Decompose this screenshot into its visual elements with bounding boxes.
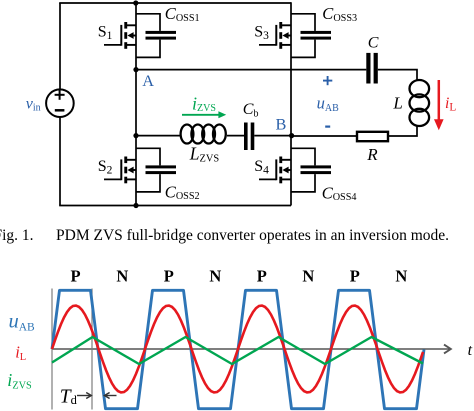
svg-text:B: B <box>276 115 287 134</box>
svg-text:S2: S2 <box>98 158 113 177</box>
capacitor COSS4 <box>291 148 331 192</box>
svg-text:iL: iL <box>15 342 26 363</box>
label minus <box>325 125 330 127</box>
svg-text:R: R <box>366 145 378 164</box>
time axis <box>52 345 451 354</box>
arrow iL <box>434 80 444 130</box>
arrow iZVS <box>182 111 226 118</box>
svg-text:iZVS: iZVS <box>7 370 32 391</box>
svg-text:S3: S3 <box>254 23 269 42</box>
label t <box>468 342 473 359</box>
svg-text:iL: iL <box>445 95 456 114</box>
svg-text:iZVS: iZVS <box>192 94 216 115</box>
legend iZVS <box>7 370 32 391</box>
waveform iL red <box>52 306 423 393</box>
svg-text:Td: Td <box>60 387 78 408</box>
wire Cb to node B <box>254 135 291 137</box>
label S2 <box>98 158 113 177</box>
node B <box>289 133 294 138</box>
Td arrow right <box>77 393 91 399</box>
label iZVS <box>192 94 216 115</box>
node A <box>133 67 138 72</box>
capacitor Cb <box>244 123 254 151</box>
label COSS4 <box>322 184 357 204</box>
wire resistor R to node B <box>291 135 357 137</box>
transistor S3 <box>259 22 291 49</box>
capacitor COSS2 <box>136 148 176 192</box>
caption Fig. 1. <box>0 227 34 244</box>
label L <box>392 94 402 113</box>
label Cb <box>243 101 259 120</box>
transistor S4 <box>259 157 291 184</box>
waveform uAB blue <box>52 290 424 408</box>
label N3 <box>302 267 314 286</box>
marker line 2 <box>91 289 93 410</box>
svg-text:S1: S1 <box>98 23 113 42</box>
svg-text:L: L <box>392 94 402 113</box>
svg-text:P: P <box>71 267 81 286</box>
svg-text:COSS2: COSS2 <box>165 183 200 203</box>
label P3 <box>257 267 267 286</box>
svg-text:N: N <box>302 267 314 286</box>
label A <box>142 71 154 90</box>
transistor S1 <box>104 22 136 49</box>
svg-text:uAB: uAB <box>317 94 339 114</box>
Td arrow left <box>105 393 117 399</box>
label S4 <box>254 158 269 177</box>
wire top bus <box>59 2 291 4</box>
label COSS1 <box>165 4 200 24</box>
wire right leg <box>290 2 292 205</box>
label vin <box>26 96 41 114</box>
wire node A leg to inductor LZVS <box>136 135 181 137</box>
svg-text:P: P <box>164 267 174 286</box>
wire inductor L to B-level <box>389 125 417 136</box>
svg-text:C: C <box>368 35 379 52</box>
svg-text:COSS1: COSS1 <box>165 4 200 24</box>
svg-text:vin: vin <box>26 96 41 114</box>
junction dot top left leg <box>133 0 138 5</box>
capacitor COSS1 <box>136 14 176 58</box>
label S3 <box>254 23 269 42</box>
wire source top riser <box>59 3 61 90</box>
resistor R <box>357 132 388 141</box>
label uAB <box>317 94 339 114</box>
waveform iZVS green <box>52 337 423 364</box>
label iL <box>445 95 456 114</box>
label N2 <box>209 267 221 286</box>
svg-text:COSS4: COSS4 <box>322 184 357 204</box>
junction dot bottom left leg <box>133 203 138 208</box>
voltage source vin <box>46 89 74 117</box>
svg-text:A: A <box>142 71 154 90</box>
svg-text:N: N <box>395 267 407 286</box>
label S1 <box>98 23 113 42</box>
label COSS3 <box>322 4 357 24</box>
label P1 <box>71 267 81 286</box>
svg-text:Cb: Cb <box>243 101 259 120</box>
svg-text:P: P <box>257 267 267 286</box>
wire source bottom riser <box>59 117 61 206</box>
svg-text:P: P <box>350 267 360 286</box>
svg-text:S4: S4 <box>254 158 269 177</box>
capacitor C <box>366 53 378 84</box>
label plus <box>323 76 332 85</box>
label B <box>276 115 287 134</box>
svg-text:Fig. 1.: Fig. 1. <box>0 227 34 244</box>
svg-text:COSS3: COSS3 <box>322 4 357 24</box>
label N1 <box>116 267 128 286</box>
svg-text:uAB: uAB <box>9 310 36 333</box>
label N4 <box>395 267 407 286</box>
label LZVS <box>189 144 220 165</box>
label R <box>366 145 378 164</box>
label P2 <box>164 267 174 286</box>
wire bottom bus <box>59 205 291 207</box>
junction dot left leg at B-level <box>133 133 138 138</box>
legend iL <box>15 342 26 363</box>
svg-text:t: t <box>468 342 473 359</box>
wire left leg <box>135 3 137 206</box>
transistor S2 <box>104 157 136 184</box>
inductor L <box>410 80 430 126</box>
svg-text:N: N <box>116 267 128 286</box>
legend uAB <box>9 310 36 333</box>
label COSS2 <box>165 183 200 203</box>
wire LZVS to Cb <box>227 135 244 137</box>
label P4 <box>350 267 360 286</box>
caption text <box>56 227 449 244</box>
label C <box>368 35 379 52</box>
wire A-level to capacitor C <box>136 69 366 71</box>
label Td <box>60 387 78 408</box>
marker line 1 <box>51 289 53 410</box>
inductor LZVS <box>181 125 226 144</box>
wire capacitor C to corner <box>378 70 417 81</box>
svg-text:LZVS: LZVS <box>189 144 220 165</box>
capacitor COSS3 <box>291 14 331 58</box>
svg-text:PDM ZVS full-bridge converter: PDM ZVS full-bridge converter operates i… <box>56 227 449 244</box>
svg-text:N: N <box>209 267 221 286</box>
